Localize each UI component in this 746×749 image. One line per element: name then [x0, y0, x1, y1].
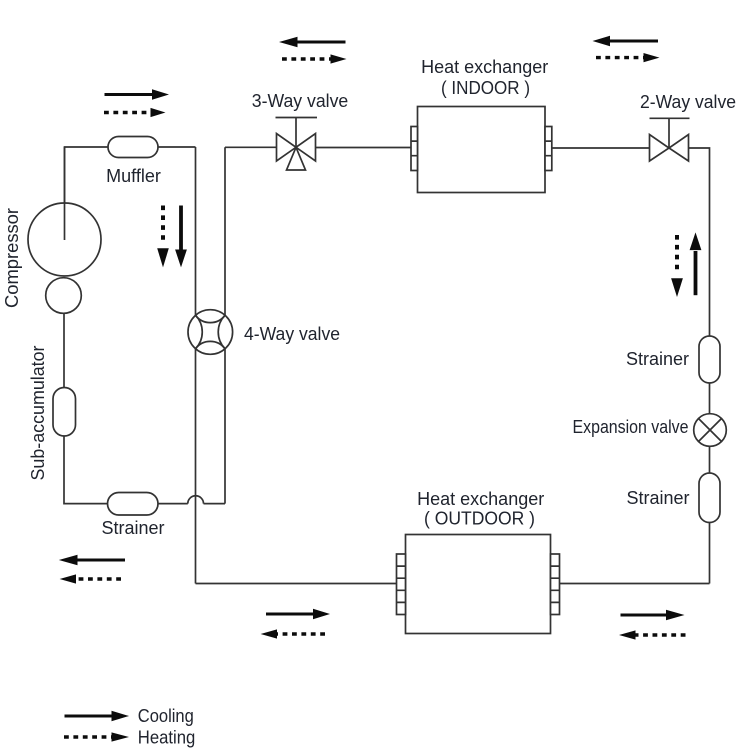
- wire: hop over left riser: [188, 496, 204, 504]
- sub-accumulator: [53, 388, 76, 437]
- wire: bottom line left segment to outdoor heat exchanger: [196, 583, 397, 585]
- wire: indoor heat exchanger to 2-way valve: [552, 147, 650, 149]
- svg-text:( OUTDOOR ): ( OUTDOOR ): [424, 509, 535, 529]
- arrow: heating left below outdoor right (dashed): [619, 630, 686, 639]
- strainer (right upper): [699, 336, 720, 383]
- arrow: cooling right below outdoor left: [266, 609, 330, 619]
- arrow: heating right top right (dashed): [596, 53, 660, 62]
- wire: right riser strainer to bottom line: [709, 523, 711, 584]
- outdoor heat exchanger: [397, 535, 560, 634]
- legend arrow: heating (dashed): [64, 732, 129, 741]
- wire: left riser of 4-way valve pair (down to bottom line): [195, 147, 197, 584]
- arrow: cooling right below outdoor right: [621, 610, 685, 620]
- arrow: cooling right above muffler: [105, 89, 170, 99]
- svg-text:Heating: Heating: [138, 728, 196, 748]
- wire: 3-way valve to indoor heat exchanger: [316, 147, 412, 149]
- wire: right riser of 4-way valve pair (up to 3-way valve line): [224, 147, 226, 503]
- svg-text:Strainer: Strainer: [626, 488, 689, 508]
- compressor body (large circle): [28, 203, 101, 276]
- svg-text:Compressor: Compressor: [2, 208, 22, 308]
- arrow: cooling up right side: [690, 232, 702, 295]
- arrow: heating right above muffler (dashed): [104, 108, 166, 117]
- arrow: cooling down left of riser: [175, 206, 187, 268]
- expansion valve: [694, 414, 727, 447]
- strainer (right lower): [699, 473, 720, 523]
- wire: compressor inlet stem: [64, 147, 66, 240]
- wire: bottom line right segment from outdoor heat exchanger: [560, 583, 710, 585]
- 4-way valve: [188, 310, 233, 355]
- svg-text:2-Way valve: 2-Way valve: [640, 92, 736, 112]
- svg-text:Sub-accumulator: Sub-accumulator: [28, 346, 48, 481]
- wire: right riser strainer to expansion valve: [709, 384, 711, 415]
- wire: muffler right lead: [158, 146, 196, 148]
- arrow: cooling left bottom left: [59, 555, 125, 565]
- arrow: cooling left top right: [593, 36, 659, 46]
- wire: hop to right riser: [204, 503, 226, 505]
- arrow: heating down left of riser (dashed): [157, 206, 169, 268]
- wire: muffler left lead and compressor stem: [65, 147, 109, 240]
- indoor heat exchanger: [411, 107, 552, 193]
- svg-text:Strainer: Strainer: [101, 518, 164, 538]
- svg-text:Muffler: Muffler: [106, 166, 161, 186]
- arrow: heating left bottom left (dashed): [60, 574, 121, 583]
- arrow: cooling left above 3-way valve: [279, 37, 346, 47]
- wire: sub-accumulator down and corner to strainer: [64, 436, 108, 504]
- svg-text:Expansion valve: Expansion valve: [573, 417, 689, 437]
- svg-text:4-Way valve: 4-Way valve: [244, 324, 340, 344]
- wire: 4-way to 3-way valve: [225, 146, 277, 148]
- arrow: heating left below outdoor left (dashed): [261, 629, 325, 638]
- compressor lower circle: [46, 278, 82, 314]
- svg-text:Heat exchanger: Heat exchanger: [421, 57, 548, 77]
- strainer (bottom left): [108, 493, 159, 516]
- wire: compressor to sub-accumulator: [63, 314, 65, 388]
- legend arrow: cooling: [65, 711, 130, 721]
- muffler: [108, 137, 158, 158]
- wire: right riser expansion valve to strainer: [709, 446, 711, 473]
- arrow: heating down right side (dashed): [671, 235, 683, 297]
- svg-text:Cooling: Cooling: [138, 706, 194, 726]
- arrow: heating right above 3-way valve (dashed): [282, 54, 347, 63]
- svg-text:Heat exchanger: Heat exchanger: [417, 489, 544, 509]
- wire: 2-way valve to right riser corner: [689, 148, 710, 336]
- 3-way valve: [276, 118, 318, 171]
- svg-text:3-Way valve: 3-Way valve: [252, 91, 349, 111]
- wire: strainer to hop: [158, 503, 188, 505]
- svg-text:( INDOOR ): ( INDOOR ): [441, 78, 530, 98]
- svg-text:Strainer: Strainer: [626, 349, 689, 369]
- 2-way valve: [650, 118, 690, 161]
